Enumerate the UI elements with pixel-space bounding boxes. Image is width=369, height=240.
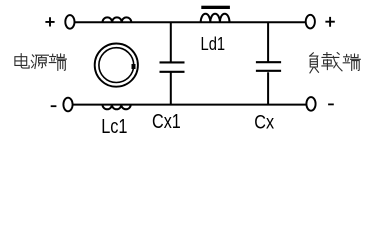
svg-text:Cx1: Cx1 (152, 110, 181, 133)
svg-text:Cx: Cx (254, 111, 274, 133)
svg-text:Lc1: Lc1 (101, 116, 127, 138)
svg-text:Ld1: Ld1 (201, 34, 226, 54)
